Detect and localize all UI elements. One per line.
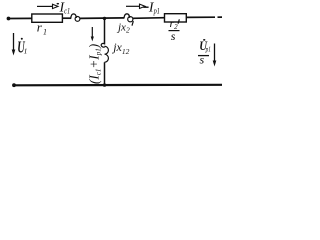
svg-text:jx12: jx12 [111,40,129,56]
svg-text:s: s [171,29,176,43]
svg-text:p1: p1 [205,46,211,54]
svg-text:jx2: jx2 [116,22,130,35]
svg-text:Ic1: Ic1 [59,1,71,16]
svg-text:Ip1: Ip1 [148,1,160,16]
svg-text:1: 1 [24,46,28,55]
svg-text:s: s [200,53,205,67]
svg-text:(Ic1+Ip1): (Ic1+Ip1) [87,44,103,84]
